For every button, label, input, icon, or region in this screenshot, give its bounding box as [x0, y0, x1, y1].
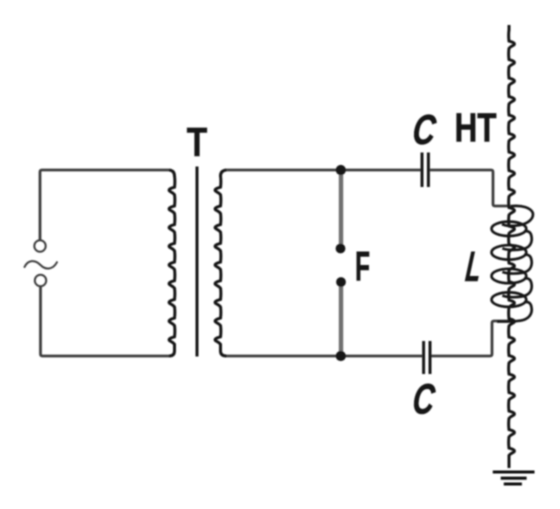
capacitor C top plate left	[421, 153, 424, 188]
inductor L coil	[492, 206, 533, 322]
spark gap lower electrode wire	[339, 282, 343, 356]
capacitor C bottom plate right	[429, 341, 432, 374]
capacitor C bottom plate left	[422, 341, 425, 374]
ac source sine symbol	[25, 261, 58, 268]
wire primary bottom	[41, 287, 170, 357]
ac source terminal circle bottom	[35, 275, 46, 286]
wire primary top	[40, 170, 169, 241]
wire secondary bottom	[227, 355, 423, 358]
transformer primary winding	[169, 170, 175, 356]
junction dot top	[336, 165, 346, 175]
capacitor C top plate right	[427, 153, 430, 188]
wire top cap to corner	[430, 170, 510, 206]
transformer core	[196, 167, 199, 357]
junction dot bottom	[336, 351, 346, 361]
svg-text:F: F	[355, 243, 370, 290]
svg-text:HT: HT	[455, 105, 497, 151]
spark gap upper ball	[336, 244, 346, 254]
wire bottom cap to corner	[431, 321, 510, 356]
spark gap upper electrode wire	[339, 170, 343, 247]
wire secondary top	[227, 169, 421, 172]
transformer secondary winding	[215, 170, 226, 356]
antenna wire HT	[509, 25, 515, 468]
ac source terminal circle top	[34, 240, 45, 251]
spark gap lower ball	[336, 277, 346, 287]
ground symbol	[493, 472, 535, 484]
svg-text:T: T	[187, 119, 208, 165]
